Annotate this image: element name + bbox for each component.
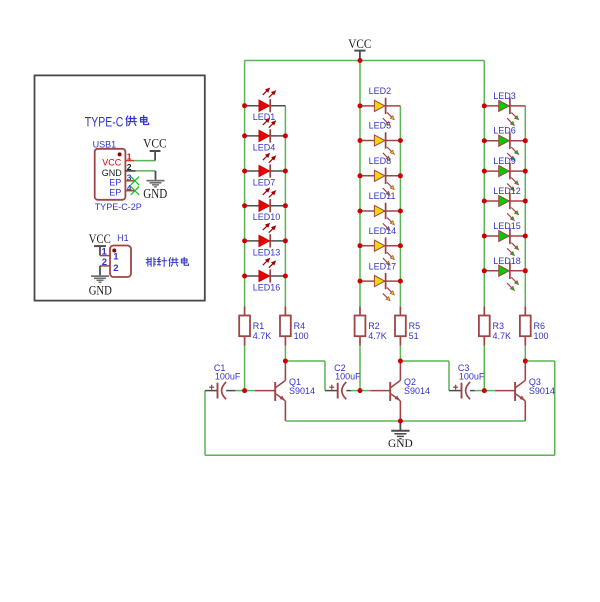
LED LED18 (green) — [484, 256, 525, 291]
node base Q3 — [482, 388, 487, 393]
svg-text:100uF: 100uF — [335, 371, 361, 381]
USB1 pin 1 stub — [125, 160, 134, 162]
svg-text:VCC: VCC — [89, 231, 111, 246]
LED LED1 (red) — [245, 88, 286, 122]
node GND junction — [398, 419, 403, 424]
svg-text:4.7K: 4.7K — [368, 331, 387, 341]
svg-text:4.7K: 4.7K — [253, 331, 272, 341]
svg-text:LED17: LED17 — [369, 261, 397, 271]
svg-text:R4: R4 — [294, 321, 306, 331]
svg-text:LED14: LED14 — [369, 226, 397, 236]
power-section border box — [35, 75, 205, 300]
svg-text:LED5: LED5 — [369, 121, 392, 131]
svg-text:R6: R6 — [534, 321, 546, 331]
header H1 body — [110, 246, 131, 278]
svg-text:100uF: 100uF — [459, 371, 485, 381]
svg-text:LED8: LED8 — [369, 156, 392, 166]
junction dots on cathode rails — [283, 133, 528, 283]
wire R4 to Q1 collector — [284, 346, 286, 362]
H1 pin 2 stub — [100, 265, 110, 267]
wire emitter rail — [285, 420, 525, 422]
wire column1 left rail — [244, 61, 246, 307]
USB1 pin number 4 — [127, 183, 132, 193]
wire Q1 collector to C2 — [285, 361, 337, 391]
svg-text:LED3: LED3 — [493, 91, 516, 101]
svg-text:R5: R5 — [409, 321, 421, 331]
resistor R1 4.7K — [239, 307, 271, 346]
wire column2 left rail — [359, 61, 361, 307]
USB1 pin number 2 — [127, 162, 132, 172]
GND symbol (USB1) — [143, 171, 167, 201]
wire column2 right rail — [399, 106, 401, 307]
svg-text:LED16: LED16 — [253, 282, 281, 292]
LED LED11 (yellow) — [360, 191, 400, 230]
resistor R3 4.7K — [479, 307, 511, 346]
wire base node to Q1 — [245, 390, 276, 392]
H1 pin name 1 — [113, 251, 119, 262]
svg-text:TYPE-C: TYPE-C — [85, 114, 124, 129]
LED LED7 (red) — [245, 153, 286, 187]
VCC symbol (H1) — [89, 231, 111, 255]
resistor R2 4.7K — [355, 307, 387, 346]
svg-text:LED13: LED13 — [253, 247, 281, 257]
title TYPE-C supply (TYPE-C供电) — [85, 114, 149, 129]
svg-text:S9014: S9014 — [529, 386, 555, 396]
svg-text:EP: EP — [109, 177, 121, 187]
node base Q1 — [242, 388, 247, 393]
LED LED4 (red) — [245, 118, 286, 152]
LED LED14 (yellow) — [360, 226, 400, 265]
LED LED8 (yellow) — [360, 156, 400, 195]
node VCC junction — [358, 58, 363, 63]
node base Q2 — [358, 388, 363, 393]
wire C2 to base node Q2 — [346, 390, 360, 392]
GND net symbol (main) — [388, 421, 413, 450]
svg-text:2: 2 — [102, 257, 107, 268]
svg-text:TYPE-C-2P: TYPE-C-2P — [95, 202, 142, 212]
LED LED3 (green) — [484, 91, 525, 126]
svg-text:LED15: LED15 — [493, 221, 521, 231]
wire Q3 collector feedback loop to C1 — [205, 361, 555, 455]
svg-text:S9014: S9014 — [404, 386, 430, 396]
label USB1 — [93, 140, 117, 150]
node Q1 collector — [283, 359, 288, 364]
svg-text:100uF: 100uF — [215, 371, 241, 381]
LED LED10 (red) — [245, 188, 286, 222]
LED LED2 (yellow) — [360, 86, 400, 125]
wire R6 to Q3 collector — [524, 346, 526, 362]
wire C3 to base node Q3 — [470, 390, 484, 392]
svg-text:100: 100 — [534, 331, 549, 341]
GND symbol (H1) — [89, 266, 112, 298]
svg-text:GND: GND — [388, 436, 413, 450]
svg-text:LED1: LED1 — [253, 112, 276, 122]
LED LED6 (green) — [484, 126, 525, 161]
svg-text:LED2: LED2 — [369, 86, 392, 96]
no-connect X pin3 — [131, 177, 139, 185]
H1 pin number 1 outside — [102, 247, 108, 258]
wire VCC top rail — [245, 60, 485, 62]
svg-text:100: 100 — [294, 331, 309, 341]
wire R3 to base node — [483, 346, 485, 391]
wire R5 to Q2 collector — [399, 346, 401, 362]
svg-text:R3: R3 — [493, 321, 505, 331]
svg-text:GND: GND — [89, 283, 112, 298]
svg-text:1: 1 — [113, 251, 119, 262]
label TYPE-C-2P — [95, 202, 142, 212]
svg-text:VCC: VCC — [143, 136, 167, 151]
connector USB1 body — [95, 149, 126, 200]
svg-text:LED7: LED7 — [253, 177, 276, 187]
svg-text:LED11: LED11 — [369, 191, 396, 201]
svg-text:R1: R1 — [253, 321, 265, 331]
svg-text:VCC: VCC — [102, 157, 122, 167]
svg-text:LED6: LED6 — [493, 126, 516, 136]
wire R2 to base node — [359, 346, 361, 391]
svg-text:4.7K: 4.7K — [493, 331, 512, 341]
wire R1 to base node — [244, 346, 246, 391]
USB1 pin 4 stub — [125, 190, 134, 192]
title pin-header supply (排针供电) — [146, 257, 188, 266]
transistor Q3 S9014 — [515, 361, 555, 421]
USB1 pin name EP (pin4) — [109, 187, 121, 197]
USB1 pin 3 stub — [125, 180, 134, 182]
LED LED16 (red) — [245, 258, 286, 292]
no-connect X pin4 — [131, 187, 139, 195]
VCC net symbol (top) — [348, 36, 371, 61]
svg-text:LED18: LED18 — [493, 256, 521, 266]
capacitor C2 100uF — [329, 363, 361, 399]
svg-text:2: 2 — [113, 263, 118, 274]
wire column1 right rail — [284, 106, 286, 307]
wire C1 to base node Q1 — [226, 390, 245, 392]
LED LED5 (yellow) — [360, 121, 400, 160]
USB1 pin name VCC — [102, 157, 122, 167]
wire column3 left rail — [483, 61, 485, 307]
node Q3 collector — [523, 359, 528, 364]
USB1 pin number 3 — [127, 173, 132, 183]
LED LED17 (yellow) — [360, 261, 400, 300]
wire base node to Q2 — [360, 390, 390, 392]
svg-text:VCC: VCC — [348, 36, 371, 51]
USB1 pin 2 stub — [125, 170, 135, 172]
wire column3 right rail — [524, 106, 526, 307]
USB1 pin name GND — [102, 168, 123, 178]
VCC symbol (USB1) — [143, 136, 167, 161]
transistor Q1 S9014 — [275, 361, 315, 421]
H1 pin number 2 outside — [102, 257, 107, 268]
USB1 pin name EP (pin3) — [109, 177, 121, 187]
junction dots on anode rails — [242, 103, 487, 283]
node Q2 collector — [398, 359, 403, 364]
svg-text:LED10: LED10 — [253, 212, 281, 222]
wire base node to Q3 — [484, 390, 515, 392]
H1 pin name 2 — [113, 263, 118, 274]
resistor R4 100 — [280, 307, 309, 346]
svg-text:1: 1 — [102, 247, 108, 258]
LED LED9 (green) — [484, 156, 525, 191]
svg-text:GND: GND — [102, 168, 123, 178]
resistor R5 51 — [395, 307, 420, 346]
capacitor C3 100uF — [453, 363, 485, 399]
svg-text:H1: H1 — [117, 233, 129, 243]
svg-text:LED9: LED9 — [493, 156, 516, 166]
svg-text:S9014: S9014 — [289, 386, 315, 396]
svg-text:EP: EP — [109, 187, 121, 197]
svg-text:LED12: LED12 — [493, 186, 521, 196]
svg-text:GND: GND — [143, 186, 167, 201]
transistor Q2 S9014 — [390, 361, 430, 421]
wire Q2 collector to C3 — [400, 361, 461, 391]
svg-text:USB1: USB1 — [93, 140, 117, 150]
svg-text:R2: R2 — [368, 321, 380, 331]
LED LED13 (red) — [245, 223, 286, 257]
svg-text:51: 51 — [409, 331, 419, 341]
label H1 — [117, 233, 129, 243]
USB1 pin number 1 — [127, 151, 132, 161]
svg-text:LED4: LED4 — [253, 142, 276, 152]
resistor R6 100 — [520, 307, 549, 346]
capacitor C1 100uF — [209, 363, 241, 399]
H1 pin 1 stub — [100, 255, 110, 257]
LED LED15 (green) — [484, 221, 525, 256]
wire pin2 to GND — [136, 170, 156, 172]
wire pin1 to VCC — [134, 160, 155, 162]
LED LED12 (green) — [484, 186, 525, 221]
